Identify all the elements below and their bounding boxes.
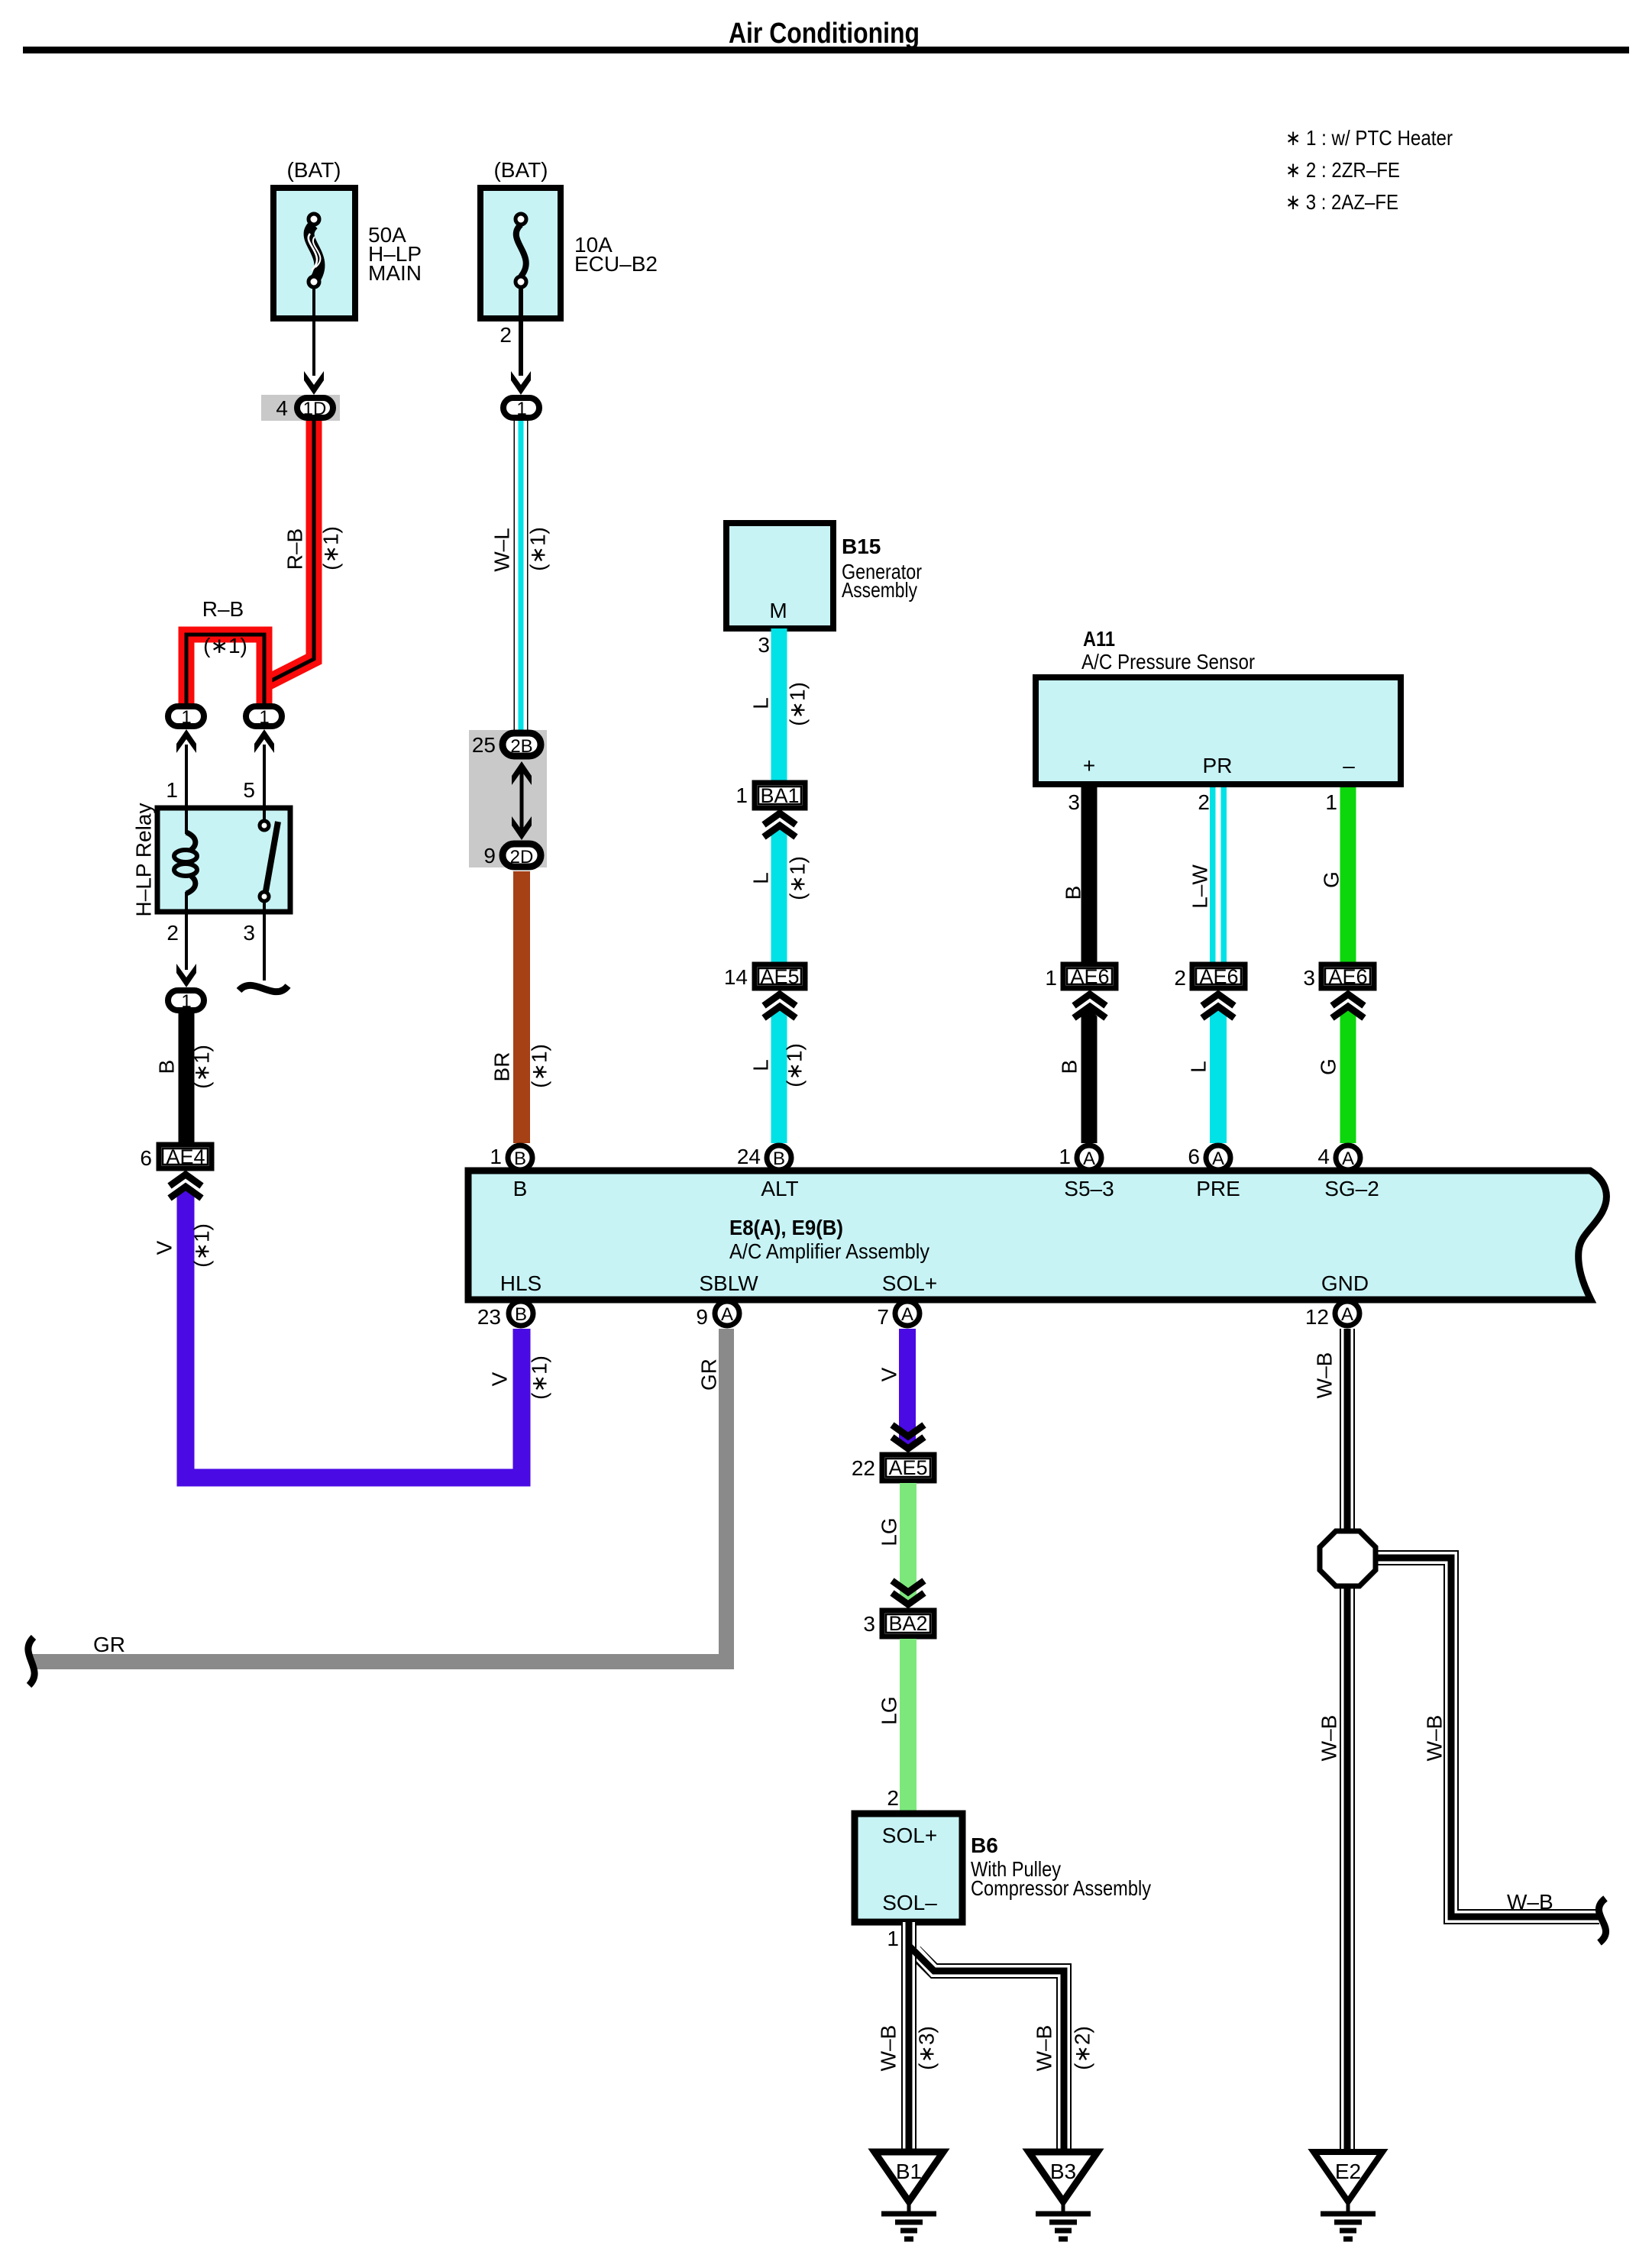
- svg-text:W–B: W–B: [1313, 1352, 1337, 1399]
- connector box AE5 pin22: [882, 1455, 934, 1481]
- wire B black: [179, 1013, 195, 1142]
- svg-text:3: 3: [758, 633, 770, 657]
- svg-text:(∗1): (∗1): [190, 1045, 214, 1089]
- relay switch: [263, 808, 266, 820]
- ground B3: [1029, 2152, 1098, 2202]
- wire relay pin3 down: [263, 912, 266, 981]
- ground E2: [1314, 2152, 1382, 2202]
- wire relay pin5: [263, 745, 266, 808]
- svg-text:SBLW: SBLW: [699, 1271, 758, 1295]
- svg-text:GR: GR: [697, 1359, 721, 1391]
- connector circle A pin7 bottom: [895, 1301, 920, 1326]
- svg-text:GR: GR: [93, 1633, 125, 1656]
- arrow into connector 1D: [304, 371, 324, 395]
- svg-text:23: 23: [477, 1305, 501, 1329]
- svg-text:1: 1: [887, 1927, 899, 1950]
- chevrons below AE6 pin3: [1332, 994, 1364, 1006]
- wire L cyan BA1 to AE5: [771, 827, 787, 964]
- svg-text:6: 6: [140, 1146, 152, 1170]
- wire W-B branch right from junction: [1373, 1558, 1599, 1917]
- connector oval 2B: [503, 733, 541, 756]
- svg-text:ALT: ALT: [761, 1177, 798, 1200]
- svg-text:(∗1): (∗1): [786, 856, 810, 900]
- connector box AE5 pin14: [755, 964, 805, 988]
- svg-text:∗ 2 : 2ZR–FE: ∗ 2 : 2ZR–FE: [1285, 158, 1400, 182]
- wire GR grey from SBLW: [31, 1329, 726, 1662]
- svg-text:V: V: [153, 1240, 176, 1255]
- connector circle A pin6 top: [1206, 1145, 1230, 1170]
- svg-text:L–W: L–W: [1188, 864, 1212, 909]
- connector oval 1 ECU: [503, 398, 539, 418]
- svg-text:2: 2: [1198, 790, 1210, 814]
- svg-text:B6: B6: [971, 1833, 998, 1857]
- svg-text:AE6: AE6: [1328, 965, 1367, 988]
- wire L cyan AE5 to ALT: [771, 1008, 787, 1143]
- svg-text:BA2: BA2: [888, 1612, 927, 1635]
- connector box AE6 pin1: [1063, 964, 1116, 988]
- svg-text:B1: B1: [896, 2160, 922, 2183]
- svg-text:ECU–B2: ECU–B2: [574, 252, 658, 276]
- squiggle cut end W-B: [1599, 1898, 1605, 1943]
- svg-text:L: L: [749, 697, 773, 709]
- svg-text:AE6: AE6: [1199, 965, 1238, 988]
- svg-text:H–LP Relay: H–LP Relay: [132, 803, 156, 917]
- svg-text:1: 1: [166, 778, 178, 802]
- fuse F1 element symbol: [309, 225, 320, 281]
- svg-text:SOL+: SOL+: [882, 1271, 937, 1295]
- svg-text:(∗2): (∗2): [1071, 2026, 1094, 2070]
- compressor assembly B6 box: [855, 1814, 962, 1922]
- arrow double between 2B and 2D: [520, 771, 524, 832]
- svg-text:A/C Amplifier Assembly: A/C Amplifier Assembly: [729, 1239, 929, 1263]
- svg-text:B3: B3: [1050, 2160, 1076, 2183]
- relay H-LP Relay box: [157, 808, 290, 912]
- svg-text:24: 24: [737, 1145, 761, 1168]
- svg-text:E2: E2: [1335, 2160, 1361, 2183]
- squiggle cut end pin3: [239, 985, 288, 991]
- squiggle cut end GR: [28, 1637, 34, 1685]
- wire W-L white-blue: [514, 421, 529, 732]
- wire L cyan AE6 to PRE: [1210, 1008, 1227, 1143]
- svg-text:1: 1: [181, 707, 191, 728]
- svg-text:1: 1: [1059, 1145, 1071, 1168]
- svg-text:(∗1): (∗1): [783, 1043, 807, 1087]
- svg-text:(∗1): (∗1): [786, 682, 810, 726]
- wire V violet from SOL+: [899, 1329, 916, 1450]
- svg-text:B: B: [513, 1177, 528, 1200]
- svg-text:3: 3: [243, 921, 255, 945]
- connector box AE4: [159, 1145, 212, 1168]
- svg-text:SOL–: SOL–: [882, 1891, 937, 1914]
- svg-text:B: B: [514, 1149, 526, 1169]
- fuse F2 10A ECU-B2 box: [480, 188, 561, 318]
- chevrons below AE6 pin1: [1074, 994, 1106, 1006]
- connector oval 2D: [503, 844, 541, 867]
- connector circle A pin9 bottom: [715, 1301, 739, 1326]
- wire G green sensor to AE6: [1340, 787, 1356, 964]
- wire W-B junction to E2 ground: [1340, 1584, 1355, 2150]
- svg-text:W–B: W–B: [1317, 1715, 1341, 1762]
- chevrons down above AE5 pin22: [892, 1425, 924, 1436]
- svg-text:R–B: R–B: [202, 597, 244, 621]
- wire W-B to B1 ground: [901, 1922, 917, 2150]
- arrow into connector 1: [511, 371, 531, 395]
- svg-text:G: G: [1317, 1058, 1340, 1075]
- junction octagon: [1320, 1531, 1376, 1586]
- svg-text:SG–2: SG–2: [1324, 1177, 1379, 1200]
- connector circle B pin23 bottom: [509, 1301, 533, 1326]
- svg-text:MAIN: MAIN: [368, 261, 422, 285]
- connector box AE6 pin3: [1321, 964, 1374, 988]
- svg-text:9: 9: [696, 1305, 708, 1329]
- wire fuse F1 lead down: [312, 287, 315, 376]
- svg-text:(∗1): (∗1): [319, 526, 343, 570]
- wire fuse F2 lead down: [519, 287, 523, 376]
- svg-text:AE5: AE5: [760, 965, 799, 988]
- arrow down into oval 1: [176, 964, 196, 987]
- wire LG light green BA2 to B6: [900, 1639, 917, 1816]
- svg-text:6: 6: [1188, 1145, 1200, 1168]
- svg-text:GND: GND: [1321, 1271, 1369, 1295]
- A/C amplifier assembly box: [468, 1171, 1606, 1300]
- connector circle B pin1 top: [508, 1145, 532, 1170]
- svg-text:E8(A), E9(B): E8(A), E9(B): [729, 1216, 843, 1239]
- connector circle A pin1 top: [1077, 1145, 1101, 1170]
- svg-text:V: V: [878, 1367, 901, 1381]
- svg-text:–: –: [1343, 754, 1355, 777]
- svg-text:HLS: HLS: [500, 1271, 542, 1295]
- svg-text:AE4: AE4: [166, 1145, 205, 1168]
- svg-text:4: 4: [276, 396, 288, 420]
- svg-text:(∗1): (∗1): [203, 634, 247, 657]
- svg-text:Air Conditioning: Air Conditioning: [729, 18, 920, 50]
- svg-text:Assembly: Assembly: [842, 578, 917, 602]
- svg-text:L: L: [749, 872, 773, 884]
- ground B1: [874, 2152, 943, 2202]
- svg-text:SOL+: SOL+: [882, 1824, 937, 1847]
- svg-text:1D: 1D: [303, 399, 327, 419]
- svg-text:B: B: [1058, 1060, 1081, 1074]
- svg-text:(∗1): (∗1): [528, 1355, 551, 1400]
- connector circle B pin24 top: [767, 1145, 791, 1170]
- fuse F1 50A H-LP MAIN box: [273, 188, 355, 318]
- connector oval 1D: [297, 398, 333, 418]
- connector circle A pin4 top: [1336, 1145, 1360, 1170]
- wire relay pin1: [185, 745, 188, 808]
- svg-text:W–B: W–B: [1507, 1890, 1553, 1914]
- svg-text:R–B: R–B: [283, 528, 307, 570]
- wire L cyan generator to BA1: [771, 628, 787, 780]
- svg-text:3: 3: [863, 1612, 875, 1636]
- svg-text:9: 9: [483, 844, 496, 867]
- svg-text:BA1: BA1: [760, 784, 799, 807]
- svg-text:2D: 2D: [510, 847, 534, 867]
- connector box AE6 pin2: [1192, 964, 1245, 988]
- svg-text:25: 25: [472, 733, 496, 757]
- wire R-B supply vertical: [264, 421, 314, 684]
- svg-text:14: 14: [724, 965, 748, 989]
- arrow up into oval 1 left: [176, 729, 196, 753]
- svg-text:2B: 2B: [510, 736, 532, 757]
- fuse F2 element symbol: [516, 225, 526, 276]
- svg-text:S5–3: S5–3: [1064, 1177, 1114, 1200]
- junction highlight box 2B-2D: [469, 730, 547, 867]
- svg-text:M: M: [769, 599, 787, 622]
- svg-text:(∗1): (∗1): [190, 1223, 214, 1268]
- svg-text:A: A: [1212, 1149, 1224, 1169]
- svg-text:∗ 1 : w/ PTC Heater: ∗ 1 : w/ PTC Heater: [1285, 126, 1453, 150]
- svg-text:W–B: W–B: [877, 2025, 900, 2072]
- svg-text:PRE: PRE: [1196, 1177, 1240, 1200]
- wire B black sensor to AE6: [1081, 787, 1098, 964]
- svg-text:1: 1: [735, 783, 748, 807]
- svg-text:(BAT): (BAT): [286, 158, 341, 182]
- connector oval 1 right: [246, 706, 282, 726]
- svg-text:∗ 3 : 2AZ–FE: ∗ 3 : 2AZ–FE: [1285, 190, 1398, 214]
- svg-text:Compressor Assembly: Compressor Assembly: [971, 1876, 1151, 1900]
- svg-text:2: 2: [887, 1786, 899, 1810]
- svg-text:4: 4: [1317, 1145, 1330, 1168]
- svg-text:B: B: [773, 1149, 785, 1169]
- chevrons down above BA2: [892, 1581, 924, 1592]
- svg-text:2: 2: [499, 323, 512, 347]
- svg-text:A11: A11: [1083, 627, 1115, 651]
- svg-text:(∗1): (∗1): [528, 1044, 551, 1088]
- svg-text:A: A: [721, 1304, 733, 1325]
- svg-text:BR: BR: [490, 1052, 514, 1082]
- svg-text:22: 22: [852, 1456, 875, 1480]
- svg-text:2: 2: [166, 921, 179, 945]
- svg-text:B15: B15: [842, 535, 881, 558]
- svg-text:(BAT): (BAT): [493, 158, 548, 182]
- svg-text:1: 1: [490, 1145, 502, 1168]
- svg-text:LG: LG: [878, 1696, 901, 1724]
- svg-text:2: 2: [1174, 966, 1186, 990]
- chevrons below AE6 pin2: [1202, 994, 1234, 1006]
- svg-text:AE5: AE5: [888, 1456, 927, 1479]
- svg-text:7: 7: [877, 1305, 889, 1329]
- svg-text:B: B: [515, 1304, 527, 1325]
- wire W-B branch lower part: [915, 1952, 1064, 2150]
- svg-text:1: 1: [1325, 790, 1337, 814]
- svg-text:L: L: [749, 1059, 773, 1071]
- svg-text:W–B: W–B: [1423, 1715, 1447, 1762]
- svg-text:1: 1: [259, 707, 269, 728]
- connector box BA1: [755, 783, 805, 808]
- svg-text:(∗1): (∗1): [526, 527, 550, 571]
- wire LG light green AE5 to BA2: [900, 1483, 917, 1606]
- connector circle A pin12 bottom: [1335, 1301, 1359, 1326]
- generator assembly B15 box: [726, 523, 833, 628]
- wire V violet path AE4 to HLS: [177, 1189, 195, 1198]
- wire B black AE6 to S5-3: [1081, 1008, 1098, 1143]
- chevrons below AE5: [764, 994, 796, 1006]
- connector box BA2 pin3: [882, 1611, 934, 1636]
- svg-text:(∗3): (∗3): [915, 2026, 939, 2070]
- chevrons below BA1: [764, 813, 796, 825]
- svg-text:3: 3: [1303, 966, 1315, 990]
- svg-text:A: A: [1083, 1149, 1095, 1169]
- connector oval 1 below relay: [168, 990, 204, 1010]
- svg-text:PR: PR: [1203, 754, 1233, 777]
- A/C pressure sensor A11 box: [1036, 677, 1401, 784]
- svg-text:12: 12: [1305, 1305, 1329, 1329]
- wire BR brown: [513, 871, 530, 1143]
- svg-text:A: A: [901, 1304, 913, 1325]
- wire W-B from GND to junction: [1340, 1329, 1355, 1532]
- svg-text:A: A: [1342, 1149, 1354, 1169]
- svg-text:A: A: [1341, 1304, 1353, 1325]
- relay coil: [185, 808, 188, 834]
- chevrons below AE4: [170, 1174, 202, 1186]
- wire relay pin2 down: [185, 912, 188, 970]
- wire G green AE6 to SG-2: [1340, 1008, 1356, 1143]
- svg-text:B: B: [1062, 886, 1085, 900]
- svg-text:W–L: W–L: [490, 528, 514, 572]
- connector 1D highlight: [261, 395, 340, 421]
- svg-text:+: +: [1083, 754, 1095, 777]
- svg-text:L: L: [1187, 1061, 1211, 1073]
- header rule: [23, 47, 1629, 53]
- svg-text:1: 1: [181, 991, 191, 1012]
- svg-text:3: 3: [1068, 790, 1080, 814]
- svg-text:W–B: W–B: [1033, 2025, 1056, 2072]
- wire R-B bridge: [186, 635, 264, 704]
- svg-text:1: 1: [1045, 966, 1057, 990]
- svg-text:B: B: [155, 1060, 179, 1074]
- svg-text:A/C Pressure Sensor: A/C Pressure Sensor: [1081, 650, 1255, 674]
- wire L-W cyan-white sensor to AE6: [1210, 787, 1227, 964]
- svg-text:1: 1: [516, 399, 526, 419]
- svg-text:LG: LG: [878, 1517, 901, 1546]
- svg-text:V: V: [488, 1371, 512, 1386]
- arrow up into oval 1 right: [254, 729, 274, 753]
- svg-text:G: G: [1320, 871, 1343, 888]
- svg-text:AE6: AE6: [1070, 965, 1109, 988]
- connector oval 1 left: [168, 706, 204, 726]
- svg-text:5: 5: [243, 778, 255, 802]
